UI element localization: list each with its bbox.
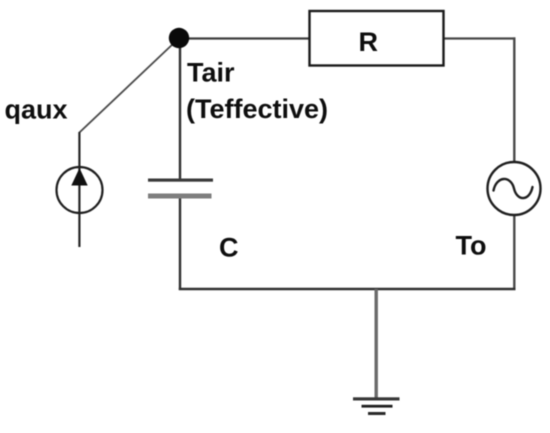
wire bottom rail — [179, 288, 516, 291]
label Tair — [187, 58, 235, 88]
AC source To (circle) — [488, 162, 541, 215]
label qaux — [5, 94, 68, 124]
ground bar 1 — [353, 397, 400, 400]
wire node to resistor (top horizontal) — [179, 37, 310, 39]
wire capacitor bottom plate to bottom rail — [179, 196, 181, 290]
node Tair (junction dot) — [169, 28, 189, 48]
label R — [359, 27, 379, 57]
label To — [456, 231, 487, 261]
svg-text:R: R — [359, 27, 379, 57]
svg-text:(Teffective): (Teffective) — [186, 94, 328, 124]
svg-text:C: C — [219, 233, 239, 263]
AC source sine wave — [494, 179, 533, 198]
capacitor C top plate — [148, 179, 213, 182]
svg-text:To: To — [456, 231, 487, 261]
ground stem — [375, 289, 378, 399]
capacitor C bottom plate — [148, 194, 212, 199]
wire top-right corner down to AC source To — [513, 37, 515, 163]
ground bar 2 — [362, 405, 393, 408]
svg-text:qaux: qaux — [5, 94, 68, 124]
wire diagonal from node to current source branch — [79, 43, 174, 133]
wire AC source bottom to bottom rail — [513, 214, 515, 290]
wire resistor to top-right corner — [443, 37, 515, 39]
ground bar 3 — [368, 412, 386, 415]
label (Teffective) — [186, 94, 328, 124]
svg-text:Tair: Tair — [187, 58, 235, 88]
current source arrow head — [71, 168, 87, 186]
label C — [219, 233, 239, 263]
resistor R (box) — [310, 11, 444, 66]
wire node down to capacitor top plate — [179, 38, 181, 180]
wire current source branch vertical (through source, with bottom stub) — [78, 132, 80, 247]
current source qaux (circle) — [57, 167, 103, 213]
